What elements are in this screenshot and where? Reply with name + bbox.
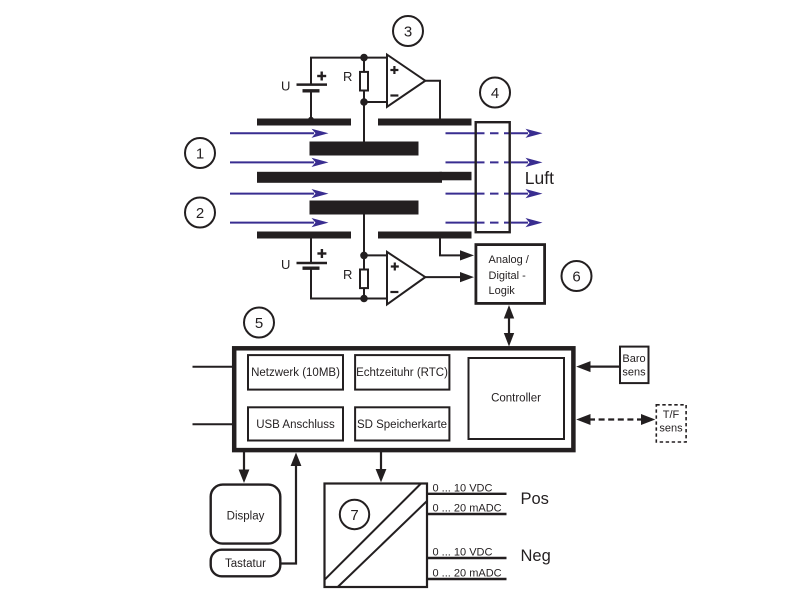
bus ADC to controller unit (double arrow): [504, 305, 514, 347]
baro sensor box: [620, 347, 649, 384]
stub line network left: [193, 366, 235, 368]
stub line USB left: [193, 423, 235, 425]
output line neg mADC: [428, 578, 507, 580]
output line pos VDC: [428, 493, 507, 495]
airflow arrow out row1: [446, 129, 543, 138]
junction node R top: [360, 54, 368, 62]
svg-text:Tastatur: Tastatur: [225, 558, 266, 570]
wire battery U4 to bottom node: [311, 268, 387, 298]
svg-text:Echtzeituhr (RTC): Echtzeituhr (RTC): [356, 367, 448, 379]
node label circle 1: [185, 138, 215, 168]
display box: [211, 485, 281, 544]
node label circle 4: [480, 78, 510, 108]
controller core box: [469, 358, 565, 439]
node label circle 2: [185, 198, 215, 228]
svg-text:Controller: Controller: [491, 393, 541, 405]
SD card module box: [355, 407, 449, 440]
svg-text:2: 2: [196, 205, 204, 222]
svg-text:Pos: Pos: [521, 490, 549, 508]
svg-text:Analog /: Analog /: [489, 254, 530, 266]
electrode plate bottom right: [378, 232, 472, 239]
node label circle 7: [340, 500, 369, 529]
electrode middle plate right: [440, 172, 472, 181]
converter diagonal 2: [338, 501, 427, 587]
svg-text:7: 7: [350, 507, 358, 524]
electrode plate bottom left: [257, 232, 351, 239]
node label circle 5: [244, 308, 274, 338]
airflow arrow in row2: [230, 158, 329, 167]
svg-text:sens: sens: [659, 423, 683, 435]
node label circle 3: [393, 16, 423, 46]
op-amp U2 minus input mark: [390, 94, 398, 96]
svg-text:4: 4: [491, 85, 499, 102]
svg-text:0 ... 10 VDC: 0 ... 10 VDC: [433, 482, 493, 494]
svg-text:Neg: Neg: [521, 547, 551, 565]
airflow arrow in row3: [230, 189, 329, 198]
svg-text:T/F: T/F: [663, 409, 680, 421]
wire battery U4 to bottom plate: [310, 239, 312, 263]
op-amp U2 plus input mark: [390, 66, 398, 74]
electrode middle plate left: [257, 172, 442, 183]
wire battery U1 to top node: [310, 58, 312, 84]
op-amp U2 (top): [387, 55, 425, 107]
airflow arrow in row4: [230, 218, 329, 227]
battery U1: [297, 85, 328, 91]
converter box 7: [325, 484, 428, 588]
keyboard box: [211, 550, 281, 577]
label T/F sens: [659, 409, 683, 435]
wire op-amp U3 output arrow to ADC: [425, 272, 474, 282]
airflow arrow out row3: [446, 189, 543, 198]
svg-text:1: 1: [196, 145, 204, 162]
junction node R2 top: [360, 252, 368, 260]
airflow arrow out row4: [446, 218, 543, 227]
electrode collector plate 2: [310, 201, 419, 215]
electrode plate top left: [257, 119, 351, 126]
controller unit box 5: [234, 348, 573, 450]
USB module box: [248, 407, 343, 440]
svg-text:Baro: Baro: [622, 353, 645, 365]
converter diagonal 1: [325, 484, 422, 580]
op-amp U3 plus input mark: [391, 263, 399, 271]
electrode plate top right: [378, 119, 472, 126]
wire battery U1 to plate: [310, 91, 312, 122]
label Analog/Digital-Logik: [489, 254, 530, 297]
label Baro sens: [622, 353, 646, 379]
resistor R1: [360, 58, 368, 102]
svg-text:U: U: [281, 79, 290, 94]
svg-text:USB Anschluss: USB Anschluss: [256, 419, 335, 431]
network module box: [248, 355, 343, 390]
svg-text:0 ... 10 VDC: 0 ... 10 VDC: [433, 547, 493, 559]
wire controller arrow to display: [239, 452, 250, 483]
svg-text:SD Speicherkarte: SD Speicherkarte: [357, 419, 447, 431]
svg-text:6: 6: [572, 268, 580, 285]
battery U4 plus sign: [317, 249, 326, 258]
output line pos mADC: [428, 513, 507, 515]
analog digital logic box: [476, 245, 545, 304]
wire bottom plate arrow to ADC: [440, 239, 474, 261]
battery U4: [297, 263, 328, 268]
svg-text:Logik: Logik: [489, 285, 516, 297]
wire keyboard arrow to controller: [282, 453, 302, 564]
battery U1 plus sign: [317, 72, 326, 81]
svg-text:5: 5: [255, 315, 263, 332]
svg-text:Digital -: Digital -: [489, 270, 527, 282]
wire inverting input U2: [364, 101, 387, 103]
resistor R2: [360, 255, 368, 298]
svg-text:sens: sens: [622, 367, 646, 379]
svg-text:Luft: Luft: [525, 168, 554, 188]
wire controller arrow to converter: [376, 452, 387, 482]
svg-text:U: U: [281, 257, 290, 272]
electrode collector plate 1: [310, 142, 419, 156]
op-amp U3 minus input mark: [390, 291, 398, 293]
output line neg VDC: [428, 557, 507, 559]
airflow arrow out row2: [446, 158, 543, 167]
wire noninverting input U3: [364, 254, 387, 256]
wire collector plate 2 to node: [363, 215, 365, 256]
svg-text:0 ... 20 mADC: 0 ... 20 mADC: [433, 503, 502, 515]
wire R to collector plate 1: [363, 102, 365, 142]
op-amp U3 (bottom): [387, 252, 425, 305]
wire op-amp U2 output to top right plate: [425, 81, 440, 122]
junction battery-plate: [308, 117, 314, 123]
svg-text:R: R: [343, 267, 352, 282]
RTC module box: [355, 355, 449, 390]
dashed bus controller to T/F sensor (double arrow): [576, 414, 655, 425]
svg-text:Display: Display: [227, 511, 265, 523]
airflow arrow in row1: [230, 129, 329, 138]
svg-text:R: R: [343, 69, 352, 84]
junction node R2 bottom: [360, 295, 368, 303]
svg-text:3: 3: [404, 23, 412, 40]
node label circle 6: [562, 261, 592, 291]
svg-text:Netzwerk (10MB): Netzwerk (10MB): [251, 367, 340, 379]
junction node R bottom: [360, 98, 368, 106]
svg-text:0 ... 20 mADC: 0 ... 20 mADC: [433, 568, 502, 580]
T/F sensor box (dashed): [656, 405, 686, 442]
measuring duct box 4: [476, 122, 510, 232]
wire baro sensor arrow to controller: [576, 361, 619, 372]
wire top node: [310, 57, 387, 59]
